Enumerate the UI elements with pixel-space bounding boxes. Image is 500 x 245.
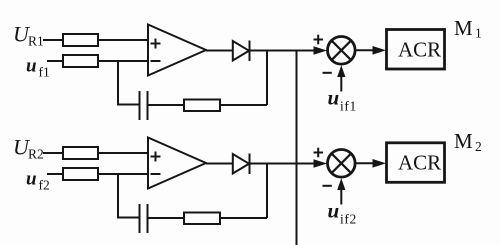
svg-text:ACR: ACR — [398, 38, 441, 62]
wire junction down to feedback 1 — [117, 61, 119, 106]
svg-text:ACR: ACR — [398, 151, 441, 175]
label M_2 — [454, 129, 482, 154]
svg-text:u: u — [26, 56, 37, 77]
op-amp A2 — [148, 138, 206, 189]
wire C1 to R3 — [148, 104, 185, 106]
arrowhead into ACR 1 — [373, 46, 387, 55]
wire junction down to feedback 2 — [117, 174, 119, 219]
op-amp A1 — [148, 25, 206, 76]
diode VD2 — [233, 154, 250, 175]
svg-text:1: 1 — [475, 26, 482, 41]
label u_f2 — [26, 169, 50, 193]
wire summing junction 2 to ACR 2 — [355, 162, 374, 164]
resistor R6 (feedback 2) — [184, 213, 220, 225]
wire u_if1 arrow up into summing junction 1 — [340, 69, 342, 92]
svg-text:u: u — [26, 169, 37, 190]
label U_R1 — [13, 22, 44, 49]
wire R2 to op-amp - input — [98, 60, 148, 62]
wire summing junction 1 to ACR 1 — [355, 49, 374, 51]
wire R1 to op-amp + input — [98, 39, 148, 41]
svg-text:f2: f2 — [39, 178, 50, 193]
resistor R5 (u_f2 input) — [63, 168, 98, 180]
arrowhead into summing junction 2 — [314, 159, 328, 168]
arrowhead into summing junction 1 — [314, 46, 328, 55]
label u_if2 — [328, 199, 357, 227]
wire U_R1 input — [43, 39, 63, 41]
wire C2 to R6 — [148, 217, 185, 219]
arrowhead u_if1 — [337, 65, 345, 77]
wire R4 to op-amp 2 + input — [98, 152, 148, 154]
long vertical bus line — [296, 51, 298, 245]
block ACR 1 — [387, 30, 445, 70]
wire R5 to op-amp 2 - input — [98, 173, 148, 175]
svg-text:2: 2 — [475, 139, 482, 154]
svg-text:M: M — [454, 129, 473, 153]
label - at summing junction 1 — [323, 72, 332, 74]
label u_f1 — [26, 56, 50, 80]
arrowhead into ACR 2 — [373, 159, 387, 168]
resistor R4 (U_R2 input) — [63, 147, 98, 159]
svg-text:if1: if1 — [340, 99, 357, 114]
wire R3 to output node 1 — [220, 104, 267, 106]
resistor R3 (feedback 1) — [184, 100, 220, 112]
label U_R2 — [13, 135, 44, 162]
wire op-amp 1 to diode — [206, 50, 233, 52]
wire feedback 1 left — [118, 104, 139, 106]
label + at summing junction 1 — [314, 35, 324, 45]
label M_1 — [454, 16, 482, 41]
label + at summing junction 2 — [314, 148, 324, 158]
svg-text:M: M — [454, 16, 473, 40]
resistor R2 (u_f1 input) — [63, 55, 98, 67]
wire diode 1 to summing junction — [250, 50, 316, 52]
label - at summing junction 2 — [323, 185, 332, 187]
wire op-amp 2 to diode — [206, 163, 233, 165]
wire R6 to output node 2 — [220, 217, 267, 219]
label u_if1 — [328, 86, 357, 114]
capacitor C2 — [140, 204, 148, 233]
svg-text:u: u — [328, 199, 340, 223]
arrowhead u_if2 — [337, 178, 345, 190]
wire feedback 2 left — [118, 217, 139, 219]
wire u_f1 input — [47, 60, 63, 62]
wire feedback 1 up to output — [266, 51, 268, 106]
svg-text:R1: R1 — [28, 34, 44, 49]
diode VD1 — [233, 41, 250, 62]
svg-text:f1: f1 — [39, 65, 50, 80]
svg-text:u: u — [328, 86, 340, 110]
capacitor C1 — [140, 91, 148, 120]
resistor R1 (U_R1 input) — [63, 34, 98, 46]
wire feedback 2 up to output — [266, 164, 268, 219]
wire u_if2 arrow up into summing junction 2 — [340, 182, 342, 205]
svg-text:if2: if2 — [340, 212, 357, 227]
wire diode 2 to summing junction — [250, 163, 316, 165]
summing junction S1 — [328, 37, 356, 65]
svg-text:R2: R2 — [28, 147, 44, 162]
wire u_f2 input — [47, 173, 63, 175]
summing junction S2 — [328, 150, 356, 178]
wire U_R2 input — [43, 152, 63, 154]
block ACR 2 — [387, 143, 445, 183]
